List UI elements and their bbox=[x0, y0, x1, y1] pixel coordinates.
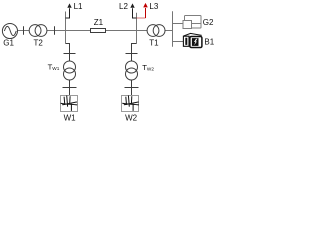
svg-text:W2: W2 bbox=[125, 114, 138, 123]
svg-text:Z1: Z1 bbox=[94, 18, 104, 27]
svg-text:L3: L3 bbox=[149, 2, 158, 11]
svg-text:T1: T1 bbox=[149, 39, 159, 48]
svg-text:G1: G1 bbox=[3, 39, 14, 48]
svg-text:T2: T2 bbox=[34, 39, 44, 48]
svg-text:B1: B1 bbox=[204, 38, 214, 47]
svg-text:W1: W1 bbox=[64, 114, 77, 123]
svg-text:L1: L1 bbox=[74, 2, 83, 11]
svg-text:G2: G2 bbox=[203, 18, 214, 27]
svg-text:L2: L2 bbox=[119, 2, 128, 11]
